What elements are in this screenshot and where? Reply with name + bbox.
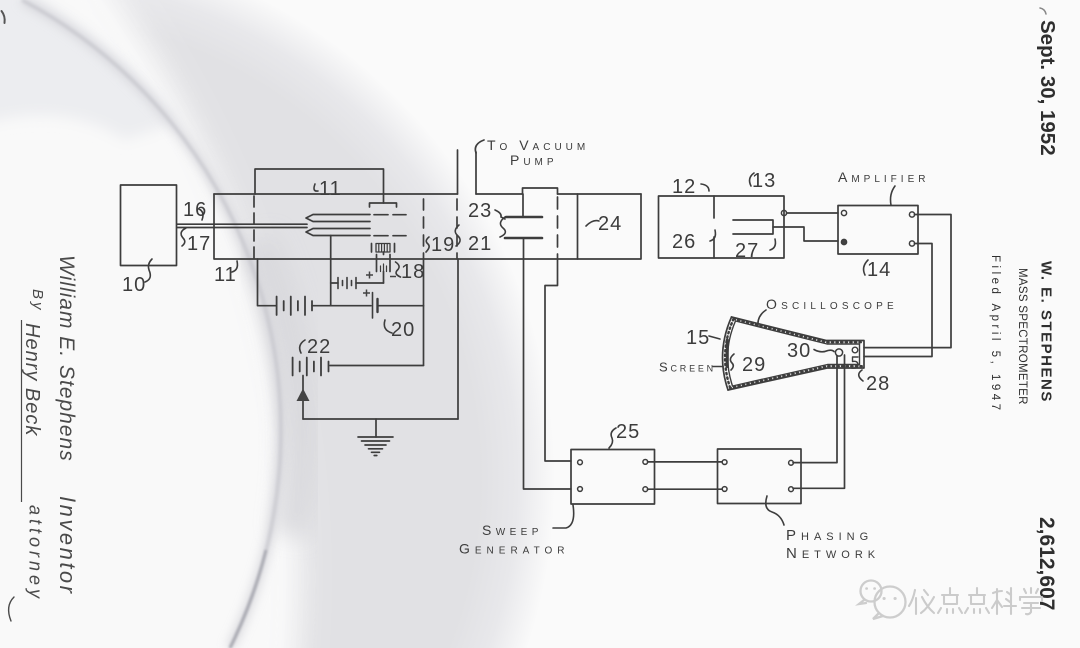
svg-text:28: 28	[866, 373, 890, 395]
svg-text:Henry Beck: Henry Beck	[21, 323, 43, 436]
svg-text:Generator: Generator	[459, 541, 570, 557]
svg-text:Screen: Screen	[659, 360, 716, 375]
svg-text:19: 19	[431, 234, 455, 256]
svg-text:Inventor: Inventor	[55, 496, 80, 596]
svg-text:24: 24	[598, 213, 622, 235]
svg-text:14: 14	[867, 259, 891, 281]
svg-text:12: 12	[672, 176, 696, 198]
svg-text:20: 20	[391, 319, 415, 341]
svg-text:10: 10	[122, 274, 146, 296]
svg-text:By: By	[29, 289, 46, 313]
svg-text:Sweep: Sweep	[482, 522, 543, 538]
svg-text:Oscilloscope: Oscilloscope	[766, 296, 898, 312]
svg-text:To Vacuum: To Vacuum	[487, 137, 589, 153]
svg-text:27: 27	[735, 240, 759, 262]
svg-text:W. E. STEPHENS: W. E. STEPHENS	[1038, 261, 1055, 403]
svg-text:29: 29	[742, 354, 766, 376]
svg-text:22: 22	[307, 336, 331, 358]
svg-text:Phasing: Phasing	[786, 527, 873, 544]
svg-text:13: 13	[752, 170, 776, 192]
svg-text:Sept. 30, 1952: Sept. 30, 1952	[1036, 20, 1059, 156]
svg-text:11: 11	[319, 178, 342, 200]
svg-text:30: 30	[787, 340, 811, 362]
svg-text:Amplifier: Amplifier	[838, 169, 929, 185]
svg-text:18: 18	[401, 261, 425, 283]
svg-text:attorney: attorney	[26, 505, 46, 602]
svg-text:15: 15	[686, 327, 710, 349]
svg-text:17: 17	[187, 233, 211, 255]
svg-text:26: 26	[672, 231, 696, 253]
svg-text:MASS SPECTROMETER: MASS SPECTROMETER	[1016, 268, 1028, 405]
svg-text:16: 16	[183, 199, 207, 221]
svg-text:11: 11	[214, 264, 237, 286]
svg-text:Filed April 5, 1947: Filed April 5, 1947	[989, 255, 1001, 414]
svg-text:Network: Network	[786, 545, 880, 562]
svg-text:Pump: Pump	[510, 152, 558, 168]
svg-text:25: 25	[616, 421, 640, 443]
svg-text:21: 21	[468, 233, 492, 255]
svg-text:23: 23	[468, 200, 492, 222]
svg-text:William E. Stephens: William E. Stephens	[55, 255, 78, 462]
